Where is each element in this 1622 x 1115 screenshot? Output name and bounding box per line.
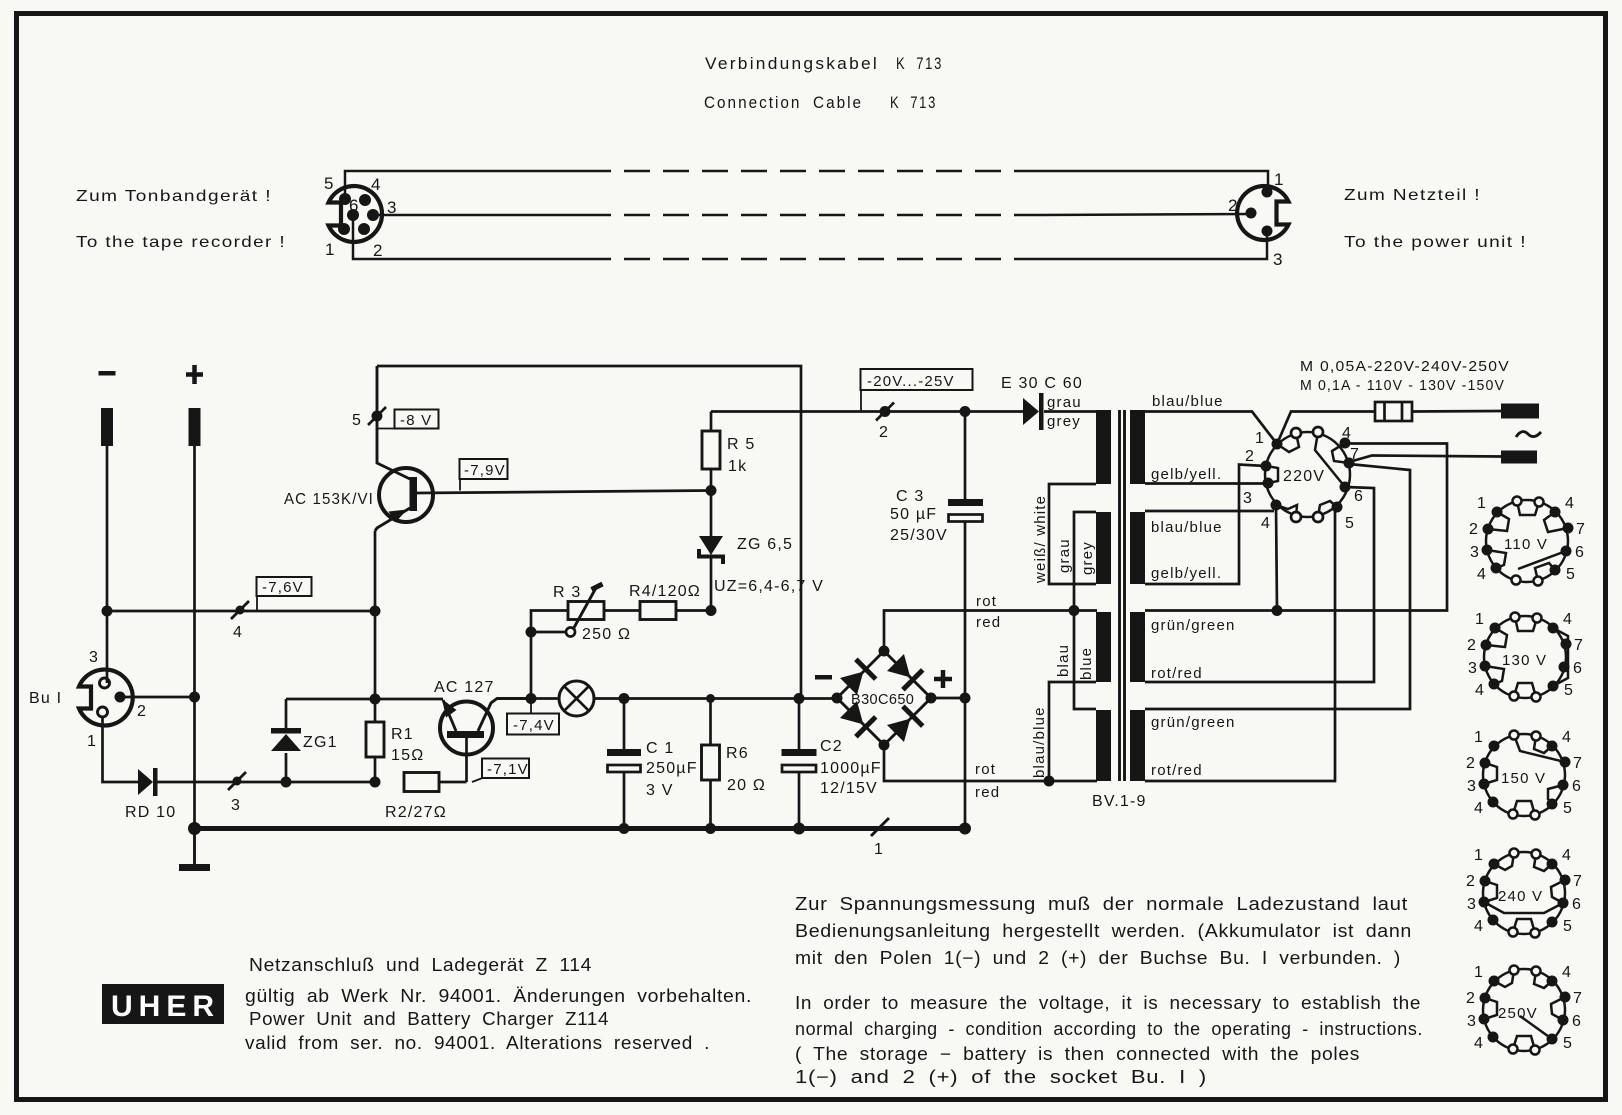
svg-text:red: red (976, 614, 1001, 631)
svg-text:15Ω: 15Ω (391, 747, 424, 764)
svg-text:50 µF: 50 µF (890, 506, 937, 523)
link 220V bracket pins 2-3 (1266, 466, 1278, 483)
svg-text:5: 5 (324, 174, 334, 193)
link circle-pin5 (1318, 501, 1337, 517)
winding S1 (1096, 410, 1111, 484)
wire -7.6V rail (107, 610, 375, 613)
selector 240V (1466, 847, 1583, 938)
svg-text:3: 3 (1467, 1013, 1477, 1030)
svg-text:6: 6 (1572, 778, 1582, 795)
svg-text:grau: grau (1056, 538, 1073, 573)
svg-text:1: 1 (1475, 611, 1485, 628)
svg-text:( The storage − battery is: ( The storage − battery is then connecte… (795, 1044, 1360, 1064)
svg-text:6: 6 (1354, 488, 1364, 505)
measure point 3 (233, 777, 242, 786)
resistor R4 (604, 609, 640, 612)
DIN pin 5 (339, 193, 351, 205)
svg-text:5: 5 (1566, 566, 1576, 583)
wire node 699 row (286, 698, 443, 701)
svg-text:7: 7 (1574, 637, 1584, 654)
DIN pin 2 (358, 223, 370, 235)
AC153 base lead (417, 491, 711, 494)
cable wire 3 bottom (353, 215, 1267, 259)
svg-text:R 5: R 5 (727, 436, 756, 453)
voltage box -20V...-25V (860, 390, 862, 412)
Bu I pin 3 (100, 678, 110, 688)
svg-text:ZG 6,5: ZG 6,5 (737, 536, 793, 553)
svg-text:2: 2 (1466, 755, 1476, 772)
battery minus terminal bar (101, 408, 113, 446)
Bu I pin 1 (98, 707, 108, 717)
svg-text:240 V: 240 V (1498, 888, 1543, 905)
svg-text:110 V: 110 V (1504, 536, 1548, 553)
svg-text:7: 7 (1573, 990, 1583, 1007)
svg-text:4: 4 (1474, 800, 1484, 817)
svg-text:E 30 C 60: E 30 C 60 (1001, 375, 1083, 392)
svg-text:ZG1: ZG1 (303, 734, 338, 751)
svg-text:Connection Cable: Connection Cable (704, 93, 863, 112)
svg-text:7: 7 (1576, 521, 1586, 538)
resistor R6 (709, 699, 712, 746)
svg-text:250µF: 250µF (646, 760, 698, 777)
svg-text:rot/red: rot/red (1151, 762, 1203, 779)
AC153 collector (377, 366, 410, 479)
svg-text:-7,9V: -7,9V (464, 462, 506, 479)
wire pin1 down (103, 717, 139, 782)
svg-text:K 713: K 713 (896, 54, 943, 73)
node dot minus rail (102, 606, 113, 617)
svg-text:K 713: K 713 (890, 93, 937, 112)
AC127 collector (478, 699, 531, 732)
node dot 965/411 (960, 406, 971, 417)
core (1120, 410, 1125, 781)
svg-text:1: 1 (1474, 964, 1484, 981)
svg-text:3: 3 (1468, 660, 1478, 677)
capacitor C2 (798, 699, 801, 751)
winding S4 (1096, 710, 1111, 781)
svg-text:1: 1 (1474, 729, 1484, 746)
wire weiss/white tap (1049, 484, 1096, 584)
svg-text:rot/red: rot/red (1151, 665, 1203, 682)
measure point 2 (880, 406, 891, 417)
svg-text:gültig ab Werk Nr. 94001. Ä: gültig ab Werk Nr. 94001. Änderungen vor… (245, 986, 752, 1006)
svg-text:4: 4 (1261, 515, 1271, 532)
zener ZG1 (285, 699, 288, 729)
svg-text:Zum Netzteil !: Zum Netzteil ! (1344, 187, 1481, 204)
svg-text:grün/green: grün/green (1151, 714, 1236, 731)
svg-text:1: 1 (1274, 170, 1284, 189)
svg-text:Bu I: Bu I (29, 690, 62, 707)
bottom rail (195, 826, 966, 831)
AC tilde (1516, 432, 1541, 437)
svg-text:grey: grey (1047, 413, 1081, 430)
svg-text:6: 6 (349, 196, 359, 215)
svg-text:C2: C2 (820, 738, 843, 755)
svg-text:4: 4 (1562, 847, 1572, 864)
svg-text:red: red (975, 784, 1000, 801)
bridge diode LL (839, 700, 878, 739)
svg-text:3: 3 (1273, 250, 1283, 269)
svg-text:2: 2 (1466, 873, 1476, 890)
svg-text:rot: rot (976, 593, 997, 610)
svg-text:3: 3 (1470, 544, 1480, 561)
svg-text:1: 1 (1477, 495, 1487, 512)
contacts filled (1272, 439, 1283, 450)
voltage box -8 V (377, 428, 395, 430)
diode RD 10 (138, 769, 153, 795)
wire pin2 to plus line (125, 696, 195, 699)
fuse (1375, 402, 1412, 421)
svg-text:-20V...-25V: -20V...-25V (867, 373, 955, 390)
wire grau/grey tap (1074, 512, 1096, 611)
wire gelb/yell-1 to contact 2/3 (1145, 482, 1268, 485)
resistor R1 (366, 722, 384, 757)
svg-text:2: 2 (879, 424, 889, 441)
svg-text:4: 4 (1563, 611, 1573, 628)
AC127 base lead (465, 738, 468, 782)
measure point 5 (372, 411, 383, 422)
svg-text:1: 1 (325, 240, 335, 259)
svg-text:4: 4 (1474, 1035, 1484, 1052)
svg-text:5: 5 (1563, 800, 1573, 817)
svg-text:weiß/ white: weiß/ white (1032, 495, 1049, 584)
svg-text:blue: blue (1078, 647, 1095, 680)
wire RD10 to node (157, 781, 375, 784)
wire plus battery down (193, 446, 196, 828)
DIN pin 3 (367, 209, 379, 221)
svg-text:R2/27Ω: R2/27Ω (385, 804, 447, 821)
svg-text:Zur Spannungsmessung muß de: Zur Spannungsmessung muß der normale Lad… (795, 894, 1408, 914)
selector 250V (1466, 964, 1583, 1055)
svg-text:gelb/yell.: gelb/yell. (1151, 565, 1222, 582)
wire minus battery down (106, 446, 109, 683)
zener ZG 6,5 (710, 491, 713, 538)
svg-text:UHER: UHER (111, 990, 220, 1023)
ground (193, 828, 196, 864)
voltage box -7,6V (256, 596, 258, 611)
connector DIN6 to tape recorder (329, 186, 383, 242)
potentiometer R3 (531, 611, 568, 699)
cable wire 2 middle (373, 214, 1251, 215)
svg-text:5: 5 (1345, 515, 1355, 532)
svg-text:3: 3 (1243, 490, 1253, 507)
voltage box -7,4V (530, 699, 532, 715)
wire row 411 (711, 410, 1097, 413)
svg-text:4: 4 (1565, 495, 1575, 512)
svg-text:2: 2 (1467, 637, 1477, 654)
svg-text:4: 4 (1562, 964, 1572, 981)
mains terminal 1 (1501, 404, 1539, 419)
svg-text:4: 4 (371, 175, 381, 194)
svg-text:Bedienungsanleitung hergestel: Bedienungsanleitung hergestellt werden. … (795, 921, 1412, 941)
wire lamp row 698 (531, 697, 837, 700)
svg-text:B30C650: B30C650 (851, 692, 914, 708)
wire bridge top to rot/red (884, 611, 1097, 652)
svg-text:M 0,1A - 110V - 130V -150V: M 0,1A - 110V - 130V -150V (1300, 377, 1505, 394)
wire pin4b down (1276, 505, 1277, 611)
svg-text:Verbindungskabel: Verbindungskabel (705, 54, 879, 73)
link diagonal circle-pin6 (1315, 432, 1345, 487)
pin 2 (1246, 208, 1257, 219)
svg-text:-7,6V: -7,6V (262, 579, 304, 596)
svg-text:RD 10: RD 10 (125, 804, 176, 821)
svg-text:Zum Tonbandgerät !: Zum Tonbandgerät ! (76, 188, 272, 205)
link pin4t-pin7 (1332, 443, 1349, 463)
svg-text:6: 6 (1573, 660, 1583, 677)
transistor AC 127 (440, 702, 493, 755)
wire blau/blue tap short (1074, 611, 1096, 710)
wire top rail collector (377, 366, 801, 699)
wire bridge plus to vertical (931, 697, 965, 700)
bridge diode UR (886, 653, 925, 692)
svg-text:R6: R6 (726, 745, 749, 762)
svg-text:To the tape recorder !: To the tape recorder ! (76, 234, 286, 251)
wire pin7 to terminal 2 (1349, 456, 1501, 463)
AC127 emitter with arrow (443, 700, 456, 731)
pin 3 (1262, 226, 1273, 237)
selector 130V (1467, 611, 1584, 702)
wire vertical 375 (374, 531, 377, 782)
svg-text:250 Ω: 250 Ω (582, 626, 631, 643)
wire gelb/yell-2 (1145, 484, 1239, 585)
node dot 375/699 (370, 694, 381, 705)
transistor AC 153K/VI (379, 468, 433, 522)
wire blau/blue-1 to pin 1 (1145, 412, 1375, 445)
winding P4 (1130, 710, 1145, 781)
svg-text:grey: grey (1079, 541, 1096, 575)
svg-text:blau/blue: blau/blue (1151, 519, 1223, 536)
svg-text:In order to measure the v: In order to measure the voltage, it is n… (795, 993, 1421, 1013)
contacts open (1291, 428, 1301, 438)
svg-text:mit den Polen 1(−) und 2: mit den Polen 1(−) und 2 (+) der Buchse … (795, 948, 1401, 968)
wire rot/red-1R (1145, 487, 1374, 682)
svg-text:-7,4V: -7,4V (513, 717, 555, 734)
svg-text:AC 127: AC 127 (434, 679, 495, 696)
svg-text:blau/blue: blau/blue (1152, 393, 1224, 410)
svg-text:UZ=6,4-6,7 V: UZ=6,4-6,7 V (714, 578, 824, 595)
node dot rot/red junction (1069, 605, 1080, 616)
svg-text:normal charging - condition: normal charging - condition according to… (795, 1019, 1423, 1039)
bridge plus label (934, 670, 952, 688)
svg-text:12/15V: 12/15V (820, 780, 878, 797)
battery plus symbol (186, 365, 203, 384)
svg-text:250V: 250V (1498, 1005, 1538, 1022)
socket Bu I (79, 670, 133, 726)
svg-text:7: 7 (1573, 873, 1583, 890)
svg-text:1: 1 (87, 733, 97, 750)
Bu I pin 2 (115, 692, 126, 703)
svg-text:2: 2 (1469, 521, 1479, 538)
svg-text:4: 4 (1562, 729, 1572, 746)
svg-text:2: 2 (1466, 990, 1476, 1007)
svg-text:3: 3 (1467, 896, 1477, 913)
svg-text:6: 6 (1575, 544, 1585, 561)
svg-text:1k: 1k (728, 458, 747, 475)
resistor R5 (710, 412, 713, 432)
voltage box -7,1V (472, 778, 483, 782)
selector ring (1265, 432, 1350, 517)
wire blau/blue tall (1049, 682, 1096, 781)
svg-text:1: 1 (1255, 430, 1265, 447)
svg-text:R 3: R 3 (553, 584, 582, 601)
svg-text:blau: blau (1055, 644, 1072, 677)
node dot ZG1 bottom (281, 777, 292, 788)
svg-text:4: 4 (1475, 682, 1485, 699)
voltage box -7,9V (459, 479, 461, 491)
svg-text:blau/blue: blau/blue (1031, 706, 1048, 778)
winding P2 (1130, 512, 1145, 584)
winding S3 (1096, 612, 1111, 682)
winding P1 (1130, 410, 1145, 484)
svg-text:C 1: C 1 (646, 740, 675, 757)
svg-text:grau: grau (1047, 394, 1082, 411)
DIN pin 4 (359, 194, 371, 206)
svg-text:4: 4 (1342, 425, 1352, 442)
svg-text:AC 153K/VI: AC 153K/VI (284, 491, 374, 508)
svg-text:valid from ser. no. 94001.: valid from ser. no. 94001. Alterations r… (245, 1033, 710, 1053)
svg-text:rot: rot (975, 761, 996, 778)
svg-text:R4/120Ω: R4/120Ω (629, 583, 701, 600)
battery plus terminal bar (189, 408, 201, 446)
svg-text:20 Ω: 20 Ω (727, 777, 766, 794)
svg-text:-7,1V: -7,1V (487, 761, 529, 778)
svg-text:3: 3 (231, 797, 241, 814)
wire R2 to base (439, 781, 467, 784)
battery minus symbol (99, 371, 116, 376)
svg-text:130 V: 130 V (1502, 652, 1547, 669)
svg-text:2: 2 (137, 703, 147, 720)
AC153 emitter with arrow (375, 508, 410, 531)
svg-text:5: 5 (1563, 918, 1573, 935)
svg-text:1000µF: 1000µF (820, 760, 882, 777)
bridge diode LR (886, 705, 925, 744)
wire bridge bottom to rot/red (884, 745, 1097, 781)
svg-text:1: 1 (874, 841, 884, 858)
svg-text:25/30V: 25/30V (890, 527, 948, 544)
winding P3 (1130, 612, 1145, 682)
selector 110V (1469, 495, 1586, 586)
cable wire 1 top (345, 171, 1268, 199)
svg-text:BV.1-9: BV.1-9 (1092, 793, 1147, 810)
node dot 375/611 (370, 606, 381, 617)
wire gruen/green-2 (1145, 464, 1410, 709)
svg-text:To the power unit !: To the power unit ! (1344, 234, 1527, 251)
wire blau/blue-2 (1145, 510, 1274, 513)
svg-text:4: 4 (1474, 918, 1484, 935)
svg-text:4: 4 (233, 624, 243, 641)
lamp (559, 681, 594, 716)
svg-text:C 3: C 3 (896, 488, 925, 505)
DIN pin 1 (338, 223, 350, 235)
pin 1 (1262, 187, 1273, 198)
svg-text:Netzanschluß und Ladegerät: Netzanschluß und Ladegerät Z 114 (249, 955, 592, 975)
svg-text:1: 1 (1474, 847, 1484, 864)
svg-text:gelb/yell.: gelb/yell. (1151, 466, 1222, 483)
svg-text:2: 2 (373, 241, 383, 260)
svg-text:2: 2 (1228, 196, 1238, 215)
svg-text:3: 3 (89, 649, 99, 666)
svg-text:grün/green: grün/green (1151, 617, 1236, 634)
selector 150V (1466, 729, 1583, 820)
svg-text:2: 2 (1245, 448, 1255, 465)
link pin4b-circle (1276, 505, 1297, 517)
measure point 1 (871, 818, 889, 836)
UHER logo (102, 984, 224, 1024)
resistor R2 (404, 773, 439, 792)
svg-text:5: 5 (1564, 682, 1574, 699)
node dot plus pin2 (189, 692, 200, 703)
svg-text:1(−) and 2 (+) of the soc: 1(−) and 2 (+) of the socket Bu. I ) (795, 1067, 1207, 1087)
diode E30C60 (1023, 398, 1039, 425)
svg-text:7: 7 (1573, 755, 1583, 772)
svg-text:-8 V: -8 V (400, 412, 432, 429)
svg-text:Power Unit and Battery Charg: Power Unit and Battery Charger Z114 (249, 1009, 609, 1029)
bridge rectifier B30C650 (837, 651, 931, 745)
svg-text:150 V: 150 V (1501, 770, 1546, 787)
wire rot/red-2R (1145, 509, 1335, 781)
svg-text:M 0,05A-220V-240V-250V: M 0,05A-220V-240V-250V (1300, 358, 1510, 375)
measure point 4 (236, 606, 245, 615)
svg-text:6: 6 (1572, 1013, 1582, 1030)
DIN pin 6 center (347, 209, 359, 221)
mains terminal 2 (1501, 451, 1537, 464)
svg-text:R1: R1 (391, 726, 414, 743)
capacitor C1 (623, 699, 626, 751)
wire gruen/green-1 (1145, 444, 1447, 611)
svg-text:5: 5 (1563, 1035, 1573, 1052)
svg-text:220V: 220V (1283, 468, 1325, 485)
svg-text:3: 3 (1467, 778, 1477, 795)
winding S2 (1096, 512, 1111, 584)
svg-text:3 V: 3 V (646, 782, 674, 799)
svg-text:5: 5 (352, 412, 362, 429)
connector 3pin to power unit (1237, 186, 1288, 240)
svg-text:4: 4 (1477, 566, 1487, 583)
svg-text:6: 6 (1572, 896, 1582, 913)
capacitor C3 (964, 412, 967, 501)
link pin1-circle (1277, 433, 1299, 452)
node dot R1 bottom (370, 777, 381, 788)
bridge diode UL (839, 658, 878, 697)
bridge minus label (815, 675, 832, 680)
